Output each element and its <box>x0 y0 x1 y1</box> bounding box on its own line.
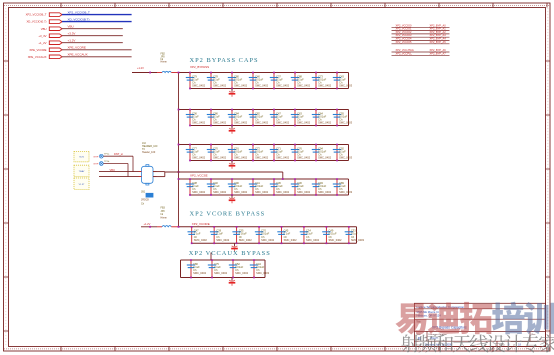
wire with net labels XP2_VCCJTAG / XP2_BYP_A6 <box>392 48 450 52</box>
capacitor C55 <box>333 109 353 127</box>
capacitor C80 <box>187 259 207 278</box>
capacitor C71 <box>270 144 290 162</box>
svg-text:SMC_0402: SMC_0402 <box>255 156 269 160</box>
svg-text:+3.3V: +3.3V <box>68 32 76 36</box>
VCORE ground <box>231 243 238 251</box>
row2 bypass ground <box>229 126 236 134</box>
svg-text:SMC_0402: SMC_0402 <box>234 121 248 125</box>
title block text <box>416 305 536 347</box>
svg-text:SMC_0402: SMC_0402 <box>255 190 269 194</box>
capacitor C93 <box>312 178 332 196</box>
svg-text:SMC_0402: SMC_0402 <box>318 156 332 160</box>
svg-text:SMC_0403: SMC_0403 <box>339 121 353 125</box>
capacitor C41 <box>249 178 269 196</box>
svg-text:DNT_st: DNT_st <box>114 152 123 156</box>
capacitor C39 <box>210 226 230 244</box>
svg-text:SMC_0402: SMC_0402 <box>194 238 208 242</box>
capacitor C64 <box>312 109 332 127</box>
port P7 XPE_VCCAUX with wire and net label <box>28 53 132 59</box>
capacitor C35 <box>232 226 252 244</box>
wire into header pin2 <box>99 176 142 178</box>
wire TP2 to header net <box>103 164 128 177</box>
svg-text:XD_VCCIO(B.T): XD_VCCIO(B.T) <box>68 17 90 21</box>
capacitor C38 <box>186 178 206 196</box>
wire +1.2V to bead FB3 <box>141 226 162 228</box>
vertical bus wire <box>178 73 180 227</box>
svg-text:XP2_VCCIO5: XP2_VCCIO5 <box>396 40 413 44</box>
svg-text:XP2 BYPASS CAPS: XP2 BYPASS CAPS <box>190 57 259 64</box>
svg-text:SCN: SCN <box>79 157 84 159</box>
svg-text:SMC_0403: SMC_0403 <box>339 190 353 194</box>
wire with net labels XP2_VCCIO1 / XP2_BYP_A1 <box>392 27 450 31</box>
svg-text:SMC_0402: SMC_0402 <box>318 190 332 194</box>
svg-text:SMC_0402: SMC_0402 <box>234 156 248 160</box>
ferrite bead FB2 <box>162 71 171 72</box>
wire header to row4 <box>165 172 284 180</box>
test point TP1 <box>94 154 110 159</box>
svg-text:SMC_0402: SMC_0402 <box>234 84 248 88</box>
svg-text:JROCK: JROCK <box>141 199 150 202</box>
svg-text:SMC_0402: SMC_0402 <box>297 84 311 88</box>
row3 bypass rails <box>179 145 349 161</box>
svg-text:VBU: VBU <box>41 27 47 31</box>
svg-text:SMC_0403: SMC_0403 <box>351 238 365 242</box>
note box 1 <box>74 151 89 161</box>
svg-text:SMC_0402: SMC_0402 <box>297 190 311 194</box>
svg-text:SMC_0402: SMC_0402 <box>329 238 343 242</box>
bus junction dots <box>178 72 180 228</box>
capacitor C80 <box>228 72 248 90</box>
wire into header pin1 <box>99 171 142 173</box>
header J10 <box>139 142 158 185</box>
svg-text:SMC_0402: SMC_0402 <box>318 84 332 88</box>
svg-text:XP2_BYPASS: XP2_BYPASS <box>190 65 209 69</box>
VCORE rails <box>179 227 357 244</box>
wire bead to bus <box>171 72 178 74</box>
svg-text:SMC_0402: SMC_0402 <box>255 84 269 88</box>
capacitor C76 <box>291 144 311 162</box>
svg-text:SMC_0403: SMC_0403 <box>339 84 353 88</box>
capacitor C70 <box>255 226 275 244</box>
ferrite bead FB3 labels <box>161 207 167 220</box>
capacitor C33 <box>345 226 365 244</box>
capacitor C45 <box>277 226 297 244</box>
wire with net labels XP2_VCCIO5 / XP2_BYP_A5 <box>392 40 450 44</box>
svg-text:XP2 VCCAUX BYPASS: XP2 VCCAUX BYPASS <box>189 250 271 257</box>
port P2 XD_VCCIO(0.7) with wire and net label <box>26 17 131 23</box>
svg-text:Ch: Ch <box>141 203 145 206</box>
svg-text:SMC_0402: SMC_0402 <box>193 271 207 275</box>
svg-text:SMC_0402: SMC_0402 <box>261 238 275 242</box>
svg-text:SMC_0402: SMC_0402 <box>284 238 298 242</box>
svg-text:SMC_0402: SMC_0402 <box>239 238 253 242</box>
wire header out pin3 <box>153 171 165 173</box>
svg-text:SMC_0402: SMC_0402 <box>318 121 332 125</box>
svg-text:SMC_0402: SMC_0402 <box>213 156 227 160</box>
svg-text:XP2_VCCSE: XP2_VCCSE <box>190 174 208 178</box>
title block frame <box>414 303 545 346</box>
row1 bypass rails <box>179 73 349 89</box>
VCCAUX ground <box>229 278 236 286</box>
svg-text:MTP: MTP <box>94 156 99 158</box>
svg-text:SMC_0402: SMC_0402 <box>213 190 227 194</box>
wire with net labels XP2_VCCIO0 / XP2_BYP_A0 <box>392 23 450 27</box>
svg-text:SMC_0402: SMC_0402 <box>235 271 249 275</box>
port P1 XP2_VCCIOB_T with wire and net label <box>26 10 132 16</box>
svg-text:SMC_0403: SMC_0403 <box>339 156 353 160</box>
svg-text:JB1: JB1 <box>141 191 146 194</box>
svg-text:SMC_0402: SMC_0402 <box>276 190 290 194</box>
svg-text:18: 18 <box>518 343 521 347</box>
svg-text:SMC_0403: SMC_0403 <box>256 271 270 275</box>
capacitor C92 <box>333 144 353 162</box>
svg-text:V1.3T: V1.3T <box>79 184 85 186</box>
svg-text:SMC_0402: SMC_0402 <box>213 84 227 88</box>
wire with net labels XP2_VCCIO4 / XP2_BYP_A4 <box>392 37 450 41</box>
net label stub VCCAUX <box>210 253 212 261</box>
svg-text:VBU: VBU <box>110 168 115 172</box>
svg-text:SMC_0402: SMC_0402 <box>276 84 290 88</box>
capacitor C44 <box>250 259 270 278</box>
capacitor C94 <box>312 144 332 162</box>
wire TP1 to header net <box>103 156 133 171</box>
capacitor C40 <box>249 72 269 90</box>
svg-text:TP1b: TP1b <box>104 161 110 163</box>
svg-text:SMC_0402: SMC_0402 <box>192 156 206 160</box>
capacitor C91 <box>228 144 248 162</box>
capacitor C77 <box>186 144 206 162</box>
capacitor C36 <box>270 178 290 196</box>
capacitor C90 <box>228 178 248 196</box>
svg-text:Hierm: Hierm <box>161 61 167 64</box>
capacitor C34 <box>300 226 320 244</box>
svg-text:+3_3V: +3_3V <box>38 34 46 38</box>
jumper JB1 <box>141 191 153 206</box>
capacitor C47 <box>188 226 208 244</box>
capacitor C70 <box>207 144 227 162</box>
row4 VCCSE ground <box>229 195 236 203</box>
svg-text:SMC_0402: SMC_0402 <box>276 156 290 160</box>
test point TP2 <box>94 161 110 166</box>
capacitor C84 <box>228 109 248 127</box>
port P4 +3_3V with wire and net label <box>38 32 122 38</box>
svg-text:XPE_VCORE: XPE_VCORE <box>68 46 86 50</box>
port P3 VBU with wire and net label <box>41 25 123 31</box>
ferrite bead FB3 <box>162 226 171 227</box>
svg-text:of: of <box>513 344 515 346</box>
svg-text:TRAV: TRAV <box>79 170 85 173</box>
watermark slogan <box>401 334 554 352</box>
svg-text:SMC_0402: SMC_0402 <box>214 271 228 275</box>
wire with net labels XP2_VCCPLL / XP2_BYP_A7 <box>392 51 450 55</box>
wire header out pin4 <box>153 176 165 178</box>
svg-text:XPE_VCCAUX: XPE_VCCAUX <box>68 53 88 57</box>
svg-text:SMC_0402: SMC_0402 <box>276 121 290 125</box>
svg-text:XPE_VCCAUX: XPE_VCCAUX <box>28 55 47 59</box>
row1 bypass ground <box>229 89 236 97</box>
svg-text:MTP: MTP <box>94 164 99 166</box>
wire tie header outputs <box>164 172 166 177</box>
wire with net labels XP2_VCCIO3 / XP2_BYP_A3 <box>392 33 450 37</box>
capacitor C40 <box>207 178 227 196</box>
capacitor C72 <box>249 144 269 162</box>
ferrite bead FB2 labels <box>161 53 167 64</box>
note box 2 <box>74 165 89 177</box>
capacitor C63 <box>291 109 311 127</box>
svg-text:XP2_VCCPLL: XP2_VCCPLL <box>396 51 413 55</box>
row3 bypass ground <box>229 161 236 169</box>
svg-text:Rev: Rev <box>532 334 537 336</box>
svg-text:XP2_VCORE: XP2_VCORE <box>192 222 210 226</box>
svg-text:XP2_VCCIOB_T: XP2_VCCIOB_T <box>26 13 47 17</box>
svg-text:SMC_0402: SMC_0402 <box>297 156 311 160</box>
capacitor C36 <box>186 109 206 127</box>
capacitor C89 <box>333 178 353 196</box>
capacitor C30 <box>291 178 311 196</box>
watermark logo yiditui-peixun <box>395 302 554 335</box>
svg-text:XPE_VCORE: XPE_VCORE <box>29 48 46 52</box>
wire bead FB3 to VCORE rail <box>171 226 178 228</box>
capacitor C49 <box>322 226 342 244</box>
wire +1.2V to bead <box>132 72 162 74</box>
svg-text:XP2_BYP_A5: XP2_BYP_A5 <box>430 40 447 44</box>
svg-text:Hierm: Hierm <box>161 216 167 219</box>
svg-text:SMC_0402: SMC_0402 <box>306 238 320 242</box>
svg-text:SMC_0402: SMC_0402 <box>255 121 269 125</box>
note box 3 <box>74 178 89 190</box>
wire with net labels XP2_VCCIO2 / XP2_BYP_A2 <box>392 30 450 34</box>
capacitor C79 <box>186 72 206 90</box>
svg-text:SMC_0402: SMC_0402 <box>213 121 227 125</box>
capacitor C88 <box>291 72 311 90</box>
svg-text:SMC_0402: SMC_0402 <box>192 121 206 125</box>
svg-text:+1.2V: +1.2V <box>144 222 151 226</box>
svg-text:XD_VCCIO(0.7): XD_VCCIO(0.7) <box>26 20 46 24</box>
capacitor C37 <box>270 72 290 90</box>
port P6 XPE_VCORE with wire and net label <box>29 46 131 52</box>
svg-text:+1_2V: +1_2V <box>38 41 46 45</box>
svg-text:Header_100: Header_100 <box>142 151 156 154</box>
capacitor C82 <box>249 109 269 127</box>
svg-text:XP2_VCCIOB_T: XP2_VCCIOB_T <box>68 10 91 14</box>
svg-text:+1.2V: +1.2V <box>137 66 144 70</box>
row4 VCCSE rails <box>179 179 349 195</box>
svg-text:SMC_0402: SMC_0402 <box>234 190 248 194</box>
svg-text:XP2_BYP_A7: XP2_BYP_A7 <box>430 51 447 55</box>
svg-text:SMC_0402: SMC_0402 <box>192 84 206 88</box>
capacitor C86 <box>207 109 227 127</box>
capacitor C47 <box>270 109 290 127</box>
capacitor C73 <box>312 72 332 90</box>
port P5 +1_2V with wire and net label <box>38 39 122 45</box>
capacitor C75 <box>208 259 228 278</box>
row2 bypass rails <box>179 110 349 126</box>
svg-text:SMC_0402: SMC_0402 <box>216 238 230 242</box>
svg-text:SMC_0402: SMC_0402 <box>297 121 311 125</box>
svg-text:+1.2V: +1.2V <box>68 39 76 43</box>
VCCAUX rails <box>181 260 266 278</box>
capacitor C43 <box>333 72 353 90</box>
svg-text:VBU: VBU <box>68 25 74 29</box>
svg-text:TP1a: TP1a <box>104 154 110 156</box>
svg-text:SMC_0402: SMC_0402 <box>192 190 206 194</box>
capacitor C52 <box>229 259 249 278</box>
capacitor C78 <box>207 72 227 90</box>
svg-text:XP2 VCORE BYPASS: XP2 VCORE BYPASS <box>190 210 266 217</box>
